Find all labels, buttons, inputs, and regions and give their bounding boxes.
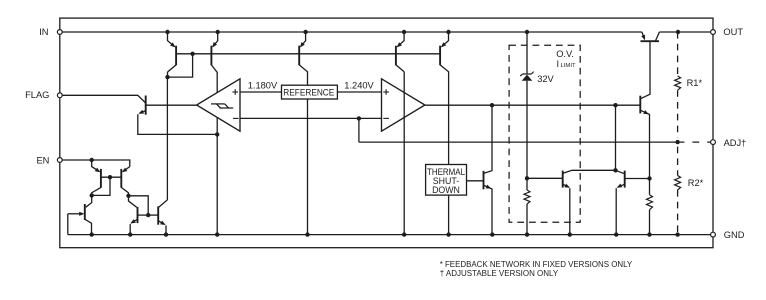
svg-text:I: I [557,59,560,69]
svg-text:1.240V: 1.240V [344,80,374,90]
svg-text:REFERENCE: REFERENCE [283,87,334,97]
svg-text:EN: EN [36,156,49,166]
svg-text:† ADJUSTABLE VERSION ONLY: † ADJUSTABLE VERSION ONLY [440,268,559,278]
svg-text:1.180V: 1.180V [248,80,278,90]
svg-text:R2*: R2* [688,178,704,188]
svg-text:GND: GND [724,230,745,240]
svg-text:IN: IN [39,27,48,37]
svg-text:DOWN: DOWN [432,185,460,195]
svg-text:ADJ†: ADJ† [724,138,747,148]
svg-text:OUT: OUT [723,27,743,37]
svg-text:32V: 32V [537,74,554,84]
svg-text:R1*: R1* [687,78,703,88]
svg-text:FLAG: FLAG [25,90,49,100]
svg-text:O.V.: O.V. [556,49,574,59]
svg-text:LIMIT: LIMIT [561,63,576,69]
